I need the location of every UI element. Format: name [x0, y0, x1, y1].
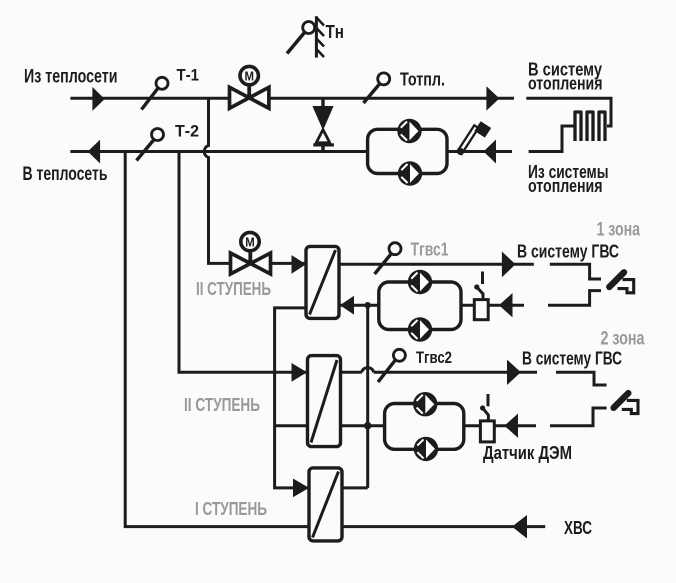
flow arrow cold water XVC: [512, 515, 527, 539]
svg-text:Тгвс1: Тгвс1: [411, 240, 449, 260]
svg-text:отопления: отопления: [528, 176, 603, 196]
svg-text:отопления: отопления: [528, 74, 603, 94]
flow sensor DEM zone2 with switch lever: [480, 394, 494, 442]
safety valve between supply and return: [312, 98, 334, 151]
flow arrow into HX1 right (circulation): [340, 296, 354, 315]
wire: vertical x=274.6 interconnecting heat exchangers: [275, 308, 309, 488]
wire: zone2 supply bracket: [556, 372, 607, 385]
wire: supply main line from heat network y=98: [70, 97, 514, 100]
svg-text:Датчик ДЭМ: Датчик ДЭМ: [483, 443, 572, 463]
wire: zone2 circulation line y=425.7: [341, 424, 537, 427]
wire: zone2 return bracket: [550, 408, 607, 426]
svg-text:М: М: [244, 69, 254, 83]
svg-text:1 зона: 1 зона: [597, 220, 641, 241]
wire: vertical x=367.7 from zone1 circulation down to HX3: [366, 305, 369, 488]
svg-text:Тн: Тн: [326, 22, 345, 42]
pump P6 zone2 bottom: [414, 437, 438, 461]
wire: valve branch line to HX1 (stage 2 upper): [267, 262, 306, 265]
radiator coil of heating system: [575, 112, 605, 141]
svg-text:Т-1: Т-1: [177, 67, 200, 85]
wire: return segment from radiator: [529, 126, 574, 152]
svg-text:В теплосеть: В теплосеть: [23, 164, 108, 185]
pump group loop on heating return: [368, 129, 447, 173]
wire: drop line x=179 to stage-2 lower heat exchanger: [179, 152, 308, 373]
heat exchanger HX2 stage II lower: [308, 356, 341, 447]
pump group loop zone 2: [385, 404, 464, 450]
svg-text:ХВС: ХВС: [564, 518, 592, 538]
wire: left drop line x=125.2 to cold water line: [125, 152, 545, 527]
temperature sensor T-2: [137, 129, 164, 161]
junction node zone2 circulation / vertical: [364, 422, 372, 430]
svg-text:Т-2: Т-2: [175, 123, 199, 141]
wire: return main line y=151.5: [70, 150, 512, 153]
flow arrow zone2 return: [504, 414, 518, 438]
flow arrow return to heat network: [88, 140, 100, 164]
outdoor temperature sensor Tn: [287, 16, 324, 57]
svg-text:II СТУПЕНЬ: II СТУПЕНЬ: [196, 279, 271, 299]
svg-text:2 зона: 2 зона: [601, 329, 645, 350]
flow arrow supply from heat network: [92, 87, 104, 111]
svg-text:М: М: [245, 235, 255, 249]
wire: riser from supply tee x=208.5 with hop over return line: [204, 98, 231, 263]
wire: zone1 supply line y=264.3: [339, 263, 534, 266]
pump P1 heating top: [397, 119, 421, 143]
flow sensor zone1 with switch lever: [474, 272, 488, 320]
wire: zone2 supply line y=372.3 with hop over vertical: [341, 371, 538, 374]
temperature sensor Tgvs1: [375, 243, 401, 274]
svg-text:В систему ГВС: В систему ГВС: [517, 241, 619, 262]
flow arrow into HX1: [292, 255, 307, 274]
wire: zone1 supply bracket: [550, 264, 601, 279]
wire: supply bracket to heating system: [526, 98, 611, 126]
temperature sensor T-1: [142, 77, 169, 109]
svg-text:I СТУПЕНЬ: I СТУПЕНЬ: [195, 499, 267, 519]
svg-text:В систему ГВС: В систему ГВС: [522, 348, 622, 369]
flow arrow zone2 supply: [507, 360, 521, 385]
flow arrow into HX3: [293, 479, 309, 498]
check valve on heating return: [457, 121, 491, 155]
motorized control valve stage II DHW: [231, 232, 271, 274]
pump P5 zone2 top: [413, 392, 437, 416]
heat exchanger HX1 stage II upper: [306, 246, 339, 318]
heat exchanger HX3 stage I: [309, 468, 342, 541]
junction node zone1 circulation / vertical: [365, 302, 371, 308]
motorized control valve on supply main: [230, 66, 269, 108]
svg-text:Тгвс2: Тгвс2: [416, 349, 452, 367]
pump P2 heating bottom: [398, 161, 422, 185]
tap zone 1: [609, 272, 633, 293]
pump group loop zone 1: [379, 282, 461, 330]
flow arrow into HX2: [292, 363, 308, 382]
flow arrow to heating system: [486, 86, 499, 110]
flow arrow zone1 supply: [502, 252, 516, 278]
wire: branch to HX2 lower left port: [275, 424, 308, 427]
svg-text:Из теплосети: Из теплосети: [24, 67, 118, 88]
wire: zone1 return bracket: [548, 291, 601, 306]
flow arrow zone1 return: [499, 293, 513, 317]
pump P3 zone1 top: [408, 270, 432, 294]
temperature sensor Totpl: [364, 73, 390, 103]
svg-text:Тотпл.: Тотпл.: [400, 68, 445, 89]
wire: zone1 circulation line y=305.2: [341, 304, 525, 307]
hop arc on zone2 supply line: [362, 368, 374, 373]
temperature sensor Tgvs2: [378, 349, 405, 382]
svg-text:II СТУПЕНЬ: II СТУПЕНЬ: [184, 395, 260, 415]
wire: HX3 right port to vertical: [342, 486, 368, 489]
tap zone 2: [614, 393, 638, 414]
flow arrow from heating system: [484, 140, 497, 164]
pump P4 zone1 bottom: [408, 317, 432, 341]
